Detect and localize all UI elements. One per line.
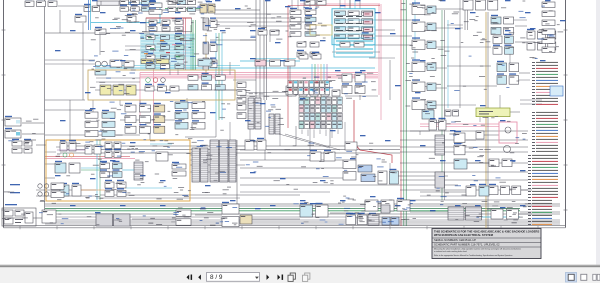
svg-text:WITH EUROPEAN CAB ELECTRICAL S: WITH EUROPEAN CAB ELECTRICAL SYSTEM (434, 233, 494, 237)
svg-text:Refer to the appropriate Servi: Refer to the appropriate Service Manual … (434, 254, 513, 257)
svg-text:THIS SCHEMATIC IS FOR THE 416C: THIS SCHEMATIC IS FOR THE 416C,426C,428C… (434, 230, 539, 234)
svg-text:SERIAL NUMBERS: 1ER45111-UP: SERIAL NUMBERS: 1ER45111-UP (434, 238, 476, 242)
svg-text:or isolated and under working: or isolated and under working brake load… (434, 250, 467, 253)
svg-text:8 / 9: 8 / 9 (210, 274, 223, 281)
svg-text:Measuring the wheel installed: Measuring the wheel installed on a fully… (434, 247, 521, 250)
svg-text:SCHEMATIC PART NUMBER: 116-797: SCHEMATIC PART NUMBER: 116-7971, UPLEVEL… (434, 242, 500, 246)
